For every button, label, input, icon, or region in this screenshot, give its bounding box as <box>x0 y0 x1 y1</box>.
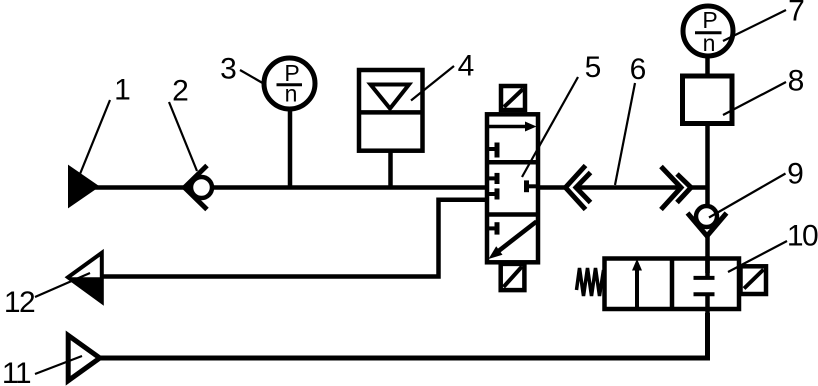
leader line 8 <box>723 82 786 115</box>
coupling 6 right chevron outer <box>661 167 681 210</box>
leader line 5 <box>522 77 578 177</box>
wire coupling line left segment <box>538 185 566 190</box>
valve 10 divider <box>670 259 675 310</box>
leader line 2 <box>169 102 197 171</box>
valve 5 top cell arrow <box>488 125 527 129</box>
check valve 9 seat <box>688 213 727 236</box>
leader line 10 <box>728 241 787 272</box>
lubricator 4 triangle <box>371 85 410 109</box>
svg-text:2: 2 <box>172 75 189 108</box>
svg-text:6: 6 <box>630 53 647 86</box>
wire bottom line from valve 10 to element 11 <box>99 313 708 358</box>
leader line 9 <box>709 174 786 218</box>
svg-text:9: 9 <box>787 158 804 191</box>
valve 5 bottom pilot diagonal <box>504 267 523 288</box>
pressure gauge 3 <box>264 58 315 109</box>
svg-text:11: 11 <box>2 357 31 386</box>
valve 5 top pilot diagonal <box>504 89 523 107</box>
valve 5 middle cell left stub upper <box>489 176 497 180</box>
valve 10 pilot square <box>741 266 767 294</box>
check valve 2 circle <box>191 177 212 198</box>
wire lubricator 4 drop <box>388 150 393 188</box>
intake triangle 11 <box>68 335 100 380</box>
valve 5 bottom cell stub <box>489 226 497 230</box>
svg-text:1: 1 <box>114 74 131 107</box>
svg-text:n: n <box>703 30 716 56</box>
leader line 1 <box>80 100 110 174</box>
coupling 6 left chevron inner <box>576 173 591 203</box>
valve 5 body <box>487 114 538 262</box>
valve 5 top pilot square <box>501 86 525 110</box>
leader line 12 <box>35 273 90 297</box>
source triangle 1 <box>69 167 98 207</box>
valve 10 pilot diagonal <box>744 270 764 289</box>
svg-text:3: 3 <box>220 53 237 86</box>
svg-text:8: 8 <box>788 65 805 98</box>
valve 10 spring <box>577 268 604 296</box>
wire gauge 3 drop <box>288 110 293 188</box>
coupling 6 left chevron outer <box>566 166 586 210</box>
valve 5 top cell port stub <box>489 147 497 151</box>
svg-text:n: n <box>285 81 298 107</box>
valve 5 bottom pilot square <box>501 264 525 290</box>
leader line 4 <box>411 66 454 101</box>
lubricator 4 body <box>359 70 423 151</box>
wire coupling right segment <box>691 185 709 190</box>
leader line 7 <box>723 10 786 41</box>
wire valve 10 bottom port <box>705 294 710 358</box>
coupling 6 right chevron inner <box>677 174 691 203</box>
leader line 11 <box>35 356 82 374</box>
lubricator 4 divider <box>359 110 423 115</box>
leader line 3 <box>240 70 266 85</box>
pressure gauge 7 <box>683 6 733 56</box>
valve 10 left cell arrow <box>635 267 639 309</box>
valve 5 divider top <box>487 160 538 165</box>
valve 5 bottom cell diagonal arrow <box>498 222 537 252</box>
valve 10 right cell top T bar <box>694 276 715 280</box>
svg-text:7: 7 <box>788 0 805 28</box>
exhaust triangle 12 <box>68 253 102 302</box>
valve 10 right cell bottom T bar <box>694 292 715 296</box>
svg-text:10: 10 <box>787 219 818 252</box>
leader line 6 <box>615 83 635 185</box>
wire main supply line <box>95 185 487 190</box>
wire exhaust line from valve 5 to element 12 <box>102 200 487 277</box>
wire coupling middle line <box>576 185 681 190</box>
valve 5 divider bottom <box>487 212 538 217</box>
receiver box 8 <box>683 76 733 124</box>
check valve 9 circle <box>696 206 717 227</box>
valve 10 body <box>605 259 740 310</box>
wire gauge 7 connector <box>705 56 710 76</box>
valve 5 middle cell left stub lower <box>489 192 497 196</box>
wire vertical line box8 to check valve 9 <box>705 126 710 206</box>
svg-text:12: 12 <box>4 286 35 319</box>
valve 5 middle cell right port <box>527 184 537 188</box>
svg-text:4: 4 <box>458 50 475 83</box>
svg-text:5: 5 <box>585 51 602 84</box>
wire check valve 9 to valve 10 <box>705 234 710 273</box>
check valve 2 seat <box>185 166 208 210</box>
